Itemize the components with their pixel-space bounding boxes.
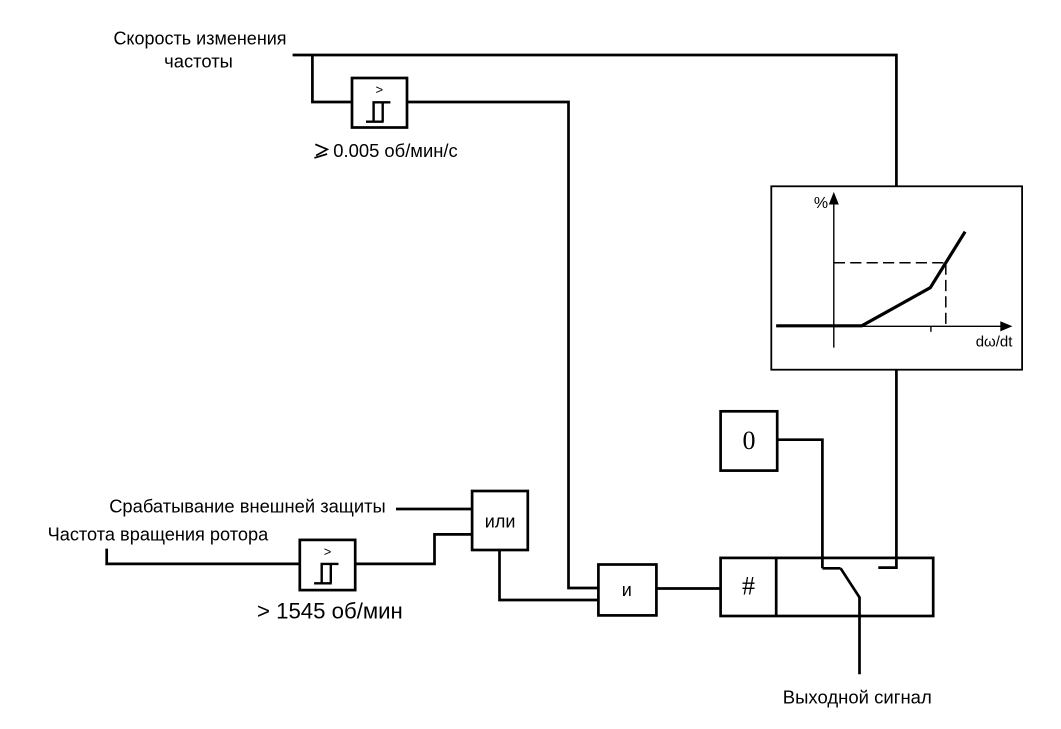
x-axis bbox=[776, 325, 1001, 327]
dashed level line bbox=[834, 262, 946, 264]
threshold block B1 (>= 0.005 rpm/s) bbox=[352, 78, 407, 128]
svg-text:>: > bbox=[324, 544, 332, 559]
svg-text:>: > bbox=[376, 82, 384, 97]
wire: B2 output up to OR block bbox=[355, 534, 472, 564]
x-axis tick bbox=[930, 326, 932, 332]
hysteresis symbol inside B1 bbox=[366, 102, 390, 121]
OR block (или) bbox=[472, 491, 528, 550]
svg-text:или: или bbox=[485, 511, 516, 531]
wire: graph block output to switch fixed contact bbox=[878, 370, 896, 568]
svg-text:Частота вращения ротора: Частота вращения ротора bbox=[48, 525, 270, 545]
switch lever and output wire bbox=[841, 568, 860, 674]
wire: external protection to OR block bbox=[396, 508, 472, 511]
svg-text:> 1545 об/мин: > 1545 об/мин bbox=[257, 599, 403, 624]
switch contact stub (from 0 input) bbox=[822, 567, 840, 570]
svg-text:dω/dt: dω/dt bbox=[976, 334, 1014, 351]
svg-text:0.005 об/мин/с: 0.005 об/мин/с bbox=[333, 140, 457, 161]
svg-text:Срабатывание внешней защиты: Срабатывание внешней защиты bbox=[109, 496, 386, 517]
switch/latch block with # section bbox=[721, 558, 934, 616]
wire: main horizontal from frequency-rate input to graph block bbox=[293, 55, 897, 186]
wire: branch down to threshold block B1 bbox=[312, 55, 352, 102]
AND block (и) bbox=[598, 565, 656, 616]
wire: B1 output down to AND block bbox=[407, 102, 598, 588]
characteristic curve bbox=[776, 232, 965, 326]
svg-text:0: 0 bbox=[743, 426, 756, 455]
svg-text:#: # bbox=[742, 572, 755, 601]
svg-text:частоты: частоты bbox=[164, 51, 233, 72]
dashed threshold line bbox=[945, 264, 947, 327]
graph block (gain vs dω/dt characteristic) bbox=[771, 186, 1022, 369]
value label: >= 0.005 об/мин/с bbox=[314, 140, 457, 161]
svg-text:%: % bbox=[814, 195, 828, 212]
drawn slanted greater-or-equal symbol bbox=[314, 144, 327, 158]
wire: constant 0 to switch contact bbox=[777, 440, 822, 569]
wire: rotor frequency to threshold block B2 bbox=[107, 549, 300, 564]
threshold block B2 (> 1545 rpm) bbox=[300, 540, 355, 590]
y-axis bbox=[833, 203, 835, 348]
constant block 0 bbox=[721, 411, 778, 470]
svg-text:и: и bbox=[622, 580, 632, 600]
hysteresis symbol inside B2 bbox=[314, 564, 338, 583]
svg-text:Выходной сигнал: Выходной сигнал bbox=[783, 687, 932, 708]
wire: AND output to latch block bbox=[656, 587, 720, 590]
node label: Скорость изменения частоты bbox=[113, 28, 286, 71]
wire: OR output down to AND block bbox=[500, 550, 599, 600]
svg-text:Скорость изменения: Скорость изменения bbox=[113, 28, 286, 48]
